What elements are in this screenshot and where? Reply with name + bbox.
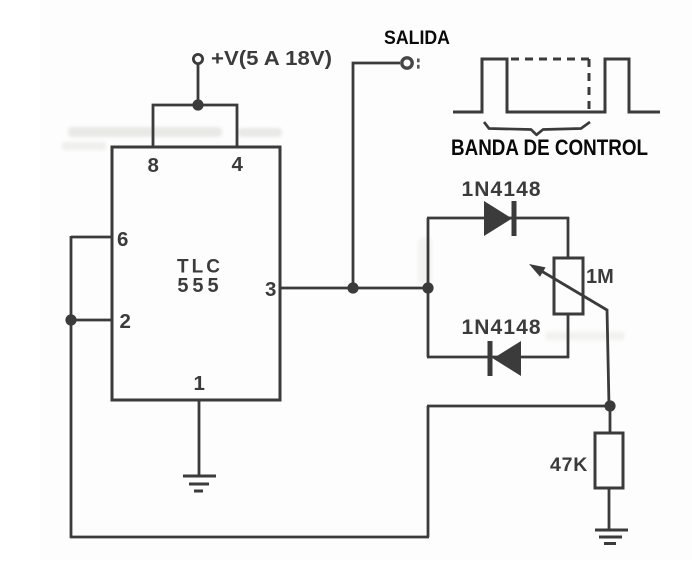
brace under control band (484, 122, 590, 135)
wire wiper down (607, 309, 609, 406)
svg-text:2: 2 (120, 310, 131, 333)
node: diode bridge junction (422, 282, 433, 293)
node: wiper/47K junction (604, 400, 615, 411)
ground (47K) (595, 530, 628, 544)
terminal SALIDA (402, 58, 412, 68)
svg-text:47K: 47K (550, 454, 588, 476)
wire diode loop right vertical bottom (567, 313, 570, 358)
svg-text:SALIDA: SALIDA (384, 27, 450, 49)
wire to SALIDA (353, 63, 400, 288)
wire +V to junction (197, 64, 200, 106)
svg-text:1: 1 (194, 372, 205, 395)
IC U1 TLC 555 timer body (112, 147, 280, 400)
wire diode loop top rail (427, 217, 569, 220)
svg-text:BANDA DE CONTROL: BANDA DE CONTROL (451, 135, 648, 160)
node: V+ junction (192, 99, 203, 110)
svg-text:1N4148: 1N4148 (462, 316, 542, 339)
svg-text:4: 4 (232, 153, 244, 176)
node: pin2/6 junction (65, 314, 76, 325)
wire left vertical (70, 236, 73, 538)
wire junction to 47K (609, 406, 612, 434)
wire diode loop bottom rail (427, 356, 569, 359)
potentiometer R1 1M body (554, 258, 583, 314)
wire bracket pins 8 and 4 (153, 105, 237, 147)
wire 47K to ground (608, 488, 611, 530)
node: output junction (347, 282, 358, 293)
wire bottom run (70, 536, 429, 539)
diode D1 1N4148 (top, pointing right) (484, 201, 512, 236)
svg-text:8: 8 (148, 154, 159, 177)
ground (pin 1) (183, 476, 216, 491)
svg-text:3: 3 (265, 278, 276, 301)
potentiometer wiper arrow (538, 269, 607, 310)
resistor R2 47K body (595, 433, 623, 488)
wire diode loop left vertical (427, 218, 430, 357)
svg-text:1N4148: 1N4148 (462, 178, 542, 201)
waveform trace (453, 59, 660, 112)
wire diode loop right vertical top (567, 217, 570, 259)
wire feedback horizontal (427, 405, 610, 408)
wire pin 6 (71, 236, 112, 239)
svg-text:1M: 1M (586, 266, 614, 288)
wire pin 1 (198, 400, 201, 476)
waveform dashed control band (511, 58, 589, 61)
diode D2 1N4148 (bottom, pointing left) (493, 341, 521, 376)
scan artifact dashes right of SALIDA terminal (417, 59, 420, 63)
svg-text:+V(5 A 18V): +V(5 A 18V) (211, 47, 332, 70)
terminal +V (193, 54, 202, 63)
wire pin 2 (71, 319, 112, 322)
svg-text:555: 555 (177, 275, 222, 297)
wire riser right (427, 406, 430, 537)
wire pin 3 (280, 287, 429, 290)
svg-text:6: 6 (117, 228, 128, 251)
